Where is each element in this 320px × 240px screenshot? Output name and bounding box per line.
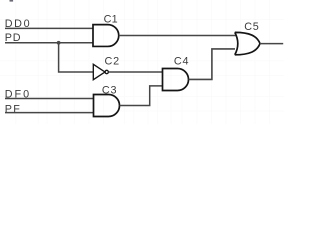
svg-text:C3: C3 <box>102 84 117 96</box>
wire C2 output to C4 pin 1 <box>109 71 163 73</box>
svg-text:C2: C2 <box>105 56 120 68</box>
OR gate C5 <box>235 32 260 54</box>
inverter C2 <box>93 64 108 79</box>
AND gate C4 <box>163 69 189 91</box>
wire PD to C1 pin 2 <box>5 42 93 44</box>
svg-text:PF: PF <box>5 103 22 115</box>
wire C4 output up to C5 pin 2 <box>189 49 236 80</box>
faint background grid <box>0 0 284 124</box>
svg-text:C4: C4 <box>174 55 189 67</box>
AND gate C1 <box>93 25 119 47</box>
wire DF0 to C3 pin 1 <box>5 98 94 100</box>
top edge artifact <box>10 0 14 2</box>
wire DD0 to C1 pin 1 <box>5 27 93 29</box>
wire C5 output <box>260 43 283 45</box>
svg-text:C5: C5 <box>244 21 259 33</box>
wire PF to C3 pin 2 <box>5 112 94 114</box>
junction dot on PD net <box>57 41 61 45</box>
wire C1 output to C5 pin 1 <box>119 35 236 37</box>
svg-text:C1: C1 <box>104 14 118 26</box>
AND gate C3 <box>94 95 120 117</box>
wire C3 output up to C4 pin 2 <box>120 86 163 106</box>
wire PD branch down to inverter C2 input <box>59 43 94 72</box>
